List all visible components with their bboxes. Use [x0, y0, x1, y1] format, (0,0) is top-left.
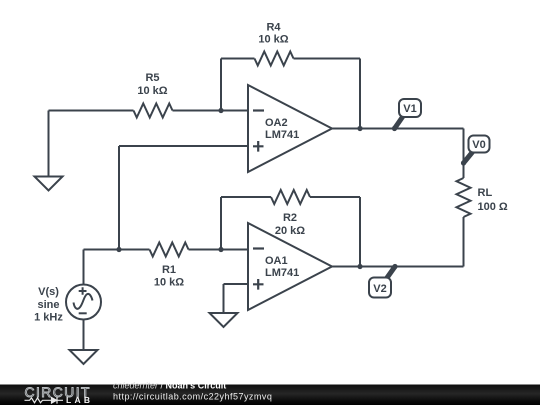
CircuitLab logo diode: [52, 397, 64, 404]
op-amp U OA1 triangle: [248, 223, 332, 310]
resistor R2: [271, 190, 310, 204]
OA1 minus sign: [253, 247, 264, 249]
svg-text:10 kΩ: 10 kΩ: [154, 277, 184, 289]
op-amp U OA2 triangle: [248, 85, 332, 172]
junction node R2 tap on OA1 output: [357, 264, 362, 269]
node flag V2: [369, 267, 395, 298]
ground (under source): [70, 350, 98, 364]
junction node V2: [392, 264, 397, 269]
wire ground drop left: [48, 111, 50, 177]
svg-text:R2: R2: [283, 212, 297, 224]
wire R4 left lead: [221, 58, 255, 60]
svg-text:R4: R4: [266, 22, 281, 34]
OA2 minus sign: [253, 109, 264, 111]
svg-text:LM741: LM741: [265, 267, 299, 279]
wire R2 right lead: [310, 196, 360, 198]
resistor R5: [134, 104, 173, 118]
svg-text:V(s): V(s): [38, 286, 59, 298]
source plus sign: [79, 287, 87, 295]
svg-text:10 kΩ: 10 kΩ: [137, 85, 167, 97]
svg-text:RL: RL: [478, 187, 493, 199]
resistor RL: [457, 178, 471, 217]
OA2 plus sign: [253, 141, 264, 152]
OA1 plus sign: [253, 279, 264, 290]
svg-text:1 kHz: 1 kHz: [34, 312, 63, 324]
svg-text:R1: R1: [162, 264, 176, 276]
svg-text:LM741: LM741: [265, 129, 299, 141]
footer bar: [0, 385, 540, 405]
wire OA1 noninverting input: [224, 283, 249, 285]
svg-text:OA2: OA2: [265, 117, 288, 129]
svg-text:R5: R5: [145, 72, 159, 84]
junction node R4 tap on OA2 output: [357, 126, 362, 131]
junction node R2 left tap: [218, 247, 223, 252]
wire R2 right vertical: [359, 197, 361, 267]
source minus sign: [79, 312, 87, 314]
svg-text:V2: V2: [373, 283, 386, 295]
wire source top vertical: [83, 250, 85, 285]
wire R4 right vertical: [359, 59, 361, 129]
wire R2 left vertical: [220, 197, 222, 250]
wire R5 to OA2 inverting input: [173, 110, 249, 112]
svg-text:V0: V0: [472, 139, 485, 151]
wire OA2 output: [332, 128, 464, 130]
svg-text:http://circuitlab.com/c22yhf57: http://circuitlab.com/c22yhf57yzmvq: [113, 392, 272, 402]
voltage source V(s) circle: [66, 285, 101, 320]
svg-text:V1: V1: [403, 103, 416, 115]
wire R1 to OA1 inverting input: [189, 249, 249, 251]
wire OA1 output rail: [332, 266, 464, 268]
wire R4 left vertical: [220, 59, 222, 111]
ground (left, under R5 input): [35, 177, 63, 191]
svg-text:OA1: OA1: [265, 255, 288, 267]
svg-text:cniederriter / Noah's Circuit: cniederriter / Noah's Circuit: [113, 381, 226, 391]
junction node OA2 plus tap: [116, 247, 121, 252]
ground (under OA1 noninverting input): [210, 313, 238, 327]
wire source bottom vertical: [83, 320, 85, 351]
wire R1 left lead: [84, 249, 150, 251]
wire right rail bottom: [463, 217, 465, 267]
CircuitLab logo resistor zigzag: [25, 398, 52, 403]
wire R4 right lead: [294, 58, 361, 60]
svg-text:20 kΩ: 20 kΩ: [275, 225, 305, 237]
resistor R4: [255, 52, 294, 66]
node flag V0: [464, 136, 490, 164]
junction node R5/R4 at OA2 inverting: [218, 108, 223, 113]
wire OA2 noninverting vertical: [118, 146, 120, 250]
wire OA1 noninverting ground drop: [223, 284, 225, 313]
resistor R1: [150, 243, 189, 257]
wire R5 left lead: [49, 110, 134, 112]
wire OA2 noninverting input: [119, 145, 248, 147]
node flag V1: [395, 99, 422, 129]
junction node V1: [392, 126, 397, 131]
voltage source sine wave: [74, 294, 93, 309]
svg-text:10 kΩ: 10 kΩ: [258, 34, 288, 46]
wire right rail top: [463, 129, 465, 179]
junction node V0: [461, 160, 466, 165]
svg-text:sine: sine: [37, 299, 59, 311]
svg-text:100 Ω: 100 Ω: [478, 201, 508, 213]
wire R2 left lead: [221, 196, 271, 198]
svg-text:LAB: LAB: [66, 395, 93, 405]
